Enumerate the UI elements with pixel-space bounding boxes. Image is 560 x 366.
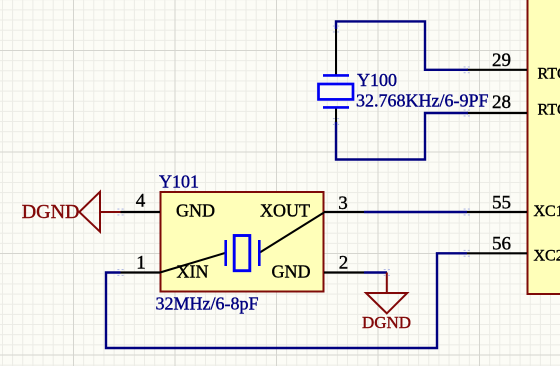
svg-text:4: 4 [136,191,146,212]
svg-text:RTC: RTC [538,65,560,82]
svg-text:2: 2 [339,253,349,274]
svg-text:1: 1 [136,253,146,274]
svg-text:GND: GND [176,201,215,221]
svg-text:Y100: Y100 [357,70,397,90]
svg-text:56: 56 [492,234,511,255]
svg-text:DGND: DGND [362,313,411,332]
svg-text:XC1: XC1 [534,203,560,220]
svg-text:32MHz/6-8pF: 32MHz/6-8pF [156,294,259,314]
svg-text:GND: GND [272,262,311,282]
svg-text:XIN: XIN [177,262,209,282]
svg-text:DGND: DGND [22,201,80,223]
svg-text:32.768KHz/6-9PF: 32.768KHz/6-9PF [356,91,489,111]
svg-text:XC2: XC2 [534,247,560,264]
svg-text:Y101: Y101 [159,172,199,192]
svg-text:RTC: RTC [538,102,560,119]
svg-text:3: 3 [338,193,348,214]
svg-text:28: 28 [492,92,511,113]
svg-text:XOUT: XOUT [260,201,310,221]
svg-text:29: 29 [492,50,511,71]
svg-text:55: 55 [492,193,511,214]
